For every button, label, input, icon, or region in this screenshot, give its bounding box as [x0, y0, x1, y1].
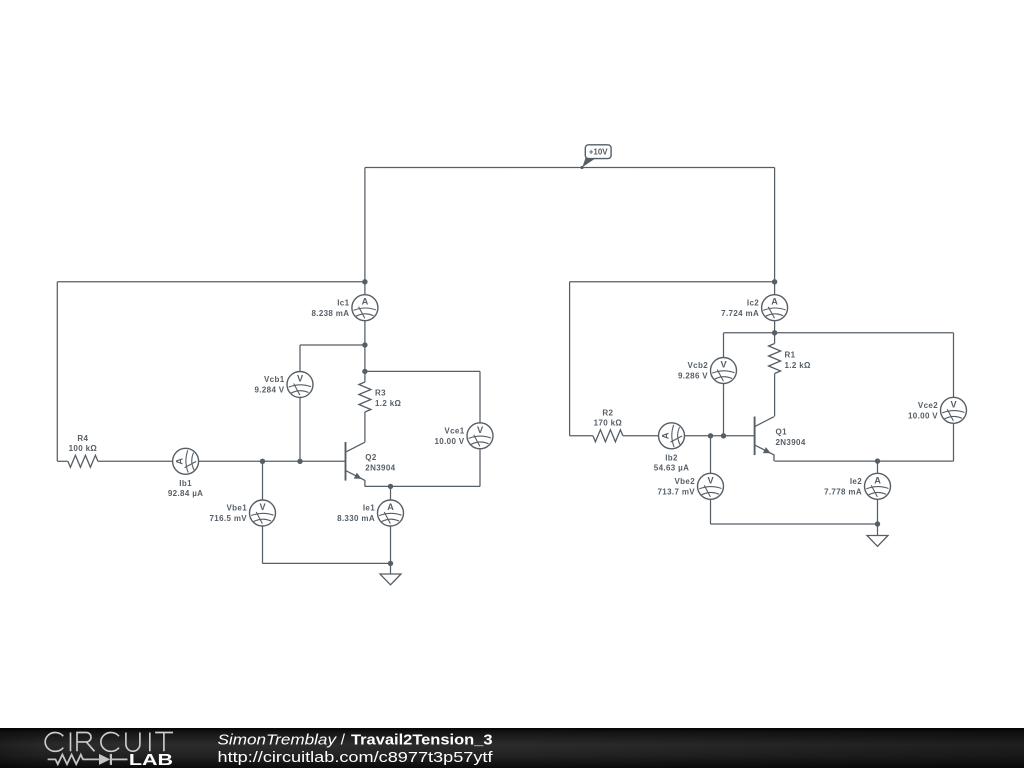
svg-text:2N3904: 2N3904 — [365, 463, 395, 472]
svg-text:R1: R1 — [785, 350, 796, 359]
svg-text:8.238 mA: 8.238 mA — [311, 309, 349, 318]
svg-text:Ic1: Ic1 — [337, 298, 349, 307]
svg-text:170 kΩ: 170 kΩ — [594, 419, 623, 428]
svg-text:SimonTremblay: SimonTremblay — [218, 732, 338, 749]
svg-text:Ic2: Ic2 — [747, 298, 759, 307]
svg-text:8.330 mA: 8.330 mA — [337, 514, 375, 523]
svg-text:Vbe1: Vbe1 — [226, 504, 247, 513]
svg-text:9.284 V: 9.284 V — [254, 386, 284, 395]
svg-text:Vce1: Vce1 — [444, 427, 464, 436]
svg-text:Vcb2: Vcb2 — [687, 361, 708, 370]
svg-text:92.84 µA: 92.84 µA — [168, 489, 203, 498]
svg-text:Ie1: Ie1 — [363, 504, 375, 513]
svg-text:1.2 kΩ: 1.2 kΩ — [375, 399, 402, 408]
svg-text:Q2: Q2 — [365, 453, 377, 462]
svg-text:100 kΩ: 100 kΩ — [69, 444, 98, 453]
svg-text:54.63 µA: 54.63 µA — [654, 464, 689, 473]
svg-text:Q1: Q1 — [776, 428, 788, 437]
svg-text:Vcb1: Vcb1 — [264, 375, 285, 384]
svg-text:+10V: +10V — [589, 148, 609, 157]
svg-text:10.00 V: 10.00 V — [908, 411, 938, 420]
svg-text:R2: R2 — [602, 408, 613, 417]
svg-text:LAB: LAB — [129, 752, 173, 768]
svg-text:716.5 mV: 716.5 mV — [210, 514, 248, 523]
svg-text:7.724 mA: 7.724 mA — [721, 309, 759, 318]
svg-text:http://circuitlab.com/c8977t3p: http://circuitlab.com/c8977t3p57ytf — [218, 749, 494, 766]
svg-text:2N3904: 2N3904 — [776, 438, 806, 447]
svg-text:Travail2Tension_3: Travail2Tension_3 — [351, 732, 493, 749]
svg-text:10.00 V: 10.00 V — [434, 437, 464, 446]
svg-text:9.286 V: 9.286 V — [678, 372, 708, 381]
svg-text:1.2 kΩ: 1.2 kΩ — [785, 361, 812, 370]
svg-text:Vbe2: Vbe2 — [674, 477, 695, 486]
svg-text:713.7 mV: 713.7 mV — [658, 487, 696, 496]
svg-text:Ib1: Ib1 — [179, 479, 192, 488]
svg-text:7.778 mA: 7.778 mA — [824, 487, 862, 496]
svg-text:Vce2: Vce2 — [918, 401, 938, 410]
svg-text:R4: R4 — [77, 434, 88, 443]
svg-text:Ie2: Ie2 — [850, 477, 862, 486]
svg-text:Ib2: Ib2 — [665, 453, 678, 462]
svg-text:R3: R3 — [375, 389, 386, 398]
